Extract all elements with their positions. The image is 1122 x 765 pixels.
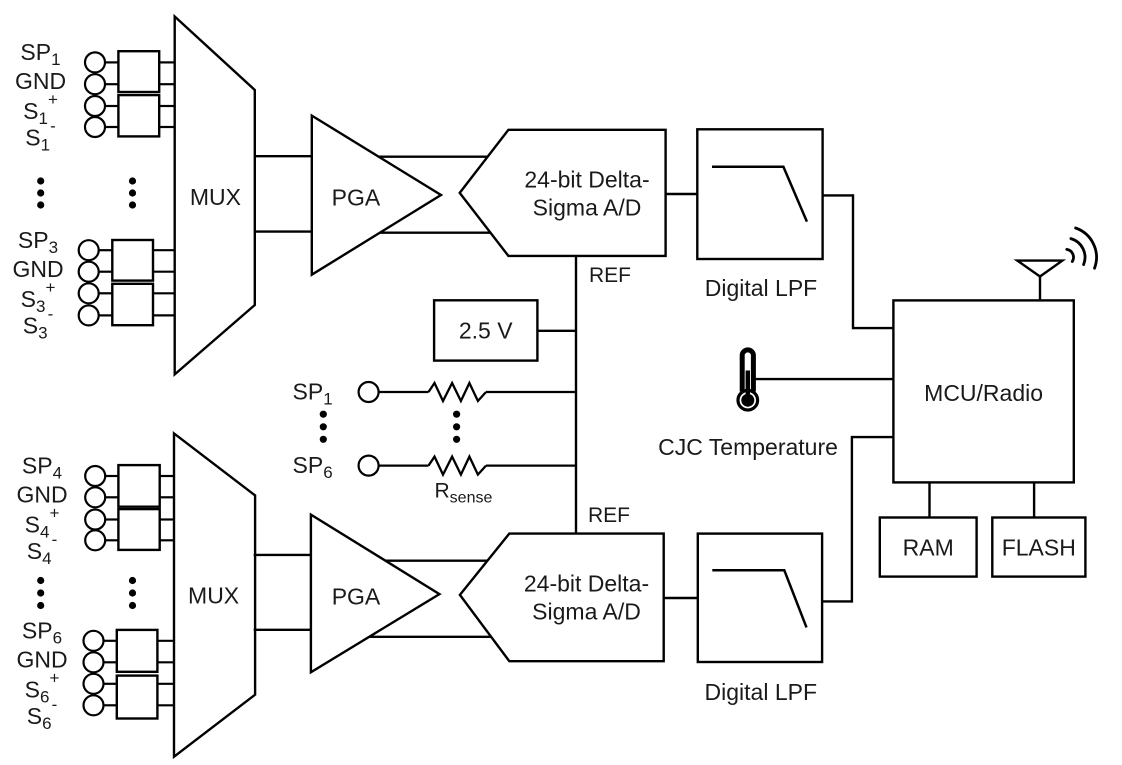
svg-text:GND: GND <box>15 68 66 94</box>
svg-text:24-bit Delta-: 24-bit Delta- <box>524 571 649 597</box>
svg-text:Sigma A/D: Sigma A/D <box>533 195 642 221</box>
svg-text:Digital LPF: Digital LPF <box>705 275 817 301</box>
svg-text:PGA: PGA <box>332 584 381 610</box>
svg-text:REF: REF <box>588 504 630 527</box>
svg-text:MUX: MUX <box>188 583 239 609</box>
svg-text:24-bit Delta-: 24-bit Delta- <box>524 167 649 193</box>
svg-text:REF: REF <box>589 264 631 287</box>
svg-text:GND: GND <box>12 256 63 282</box>
svg-text:GND: GND <box>16 646 67 672</box>
svg-text:GND: GND <box>16 482 67 508</box>
svg-text:Digital LPF: Digital LPF <box>705 679 817 705</box>
svg-text:CJC Temperature: CJC Temperature <box>658 434 838 460</box>
svg-text:2.5 V: 2.5 V <box>459 317 513 343</box>
svg-text:RAM: RAM <box>903 535 954 561</box>
svg-text:MUX: MUX <box>190 184 241 210</box>
svg-text:MCU/Radio: MCU/Radio <box>924 380 1043 406</box>
svg-text:Sigma A/D: Sigma A/D <box>532 599 641 625</box>
svg-text:FLASH: FLASH <box>1002 535 1076 561</box>
svg-text:PGA: PGA <box>332 184 381 210</box>
